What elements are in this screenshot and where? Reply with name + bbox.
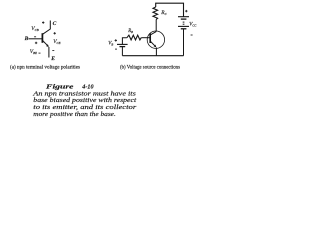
transistor Q2 (b) emitter with arrow — [151, 41, 157, 47]
svg-text:RB: RB — [127, 29, 133, 34]
wire VCC to bottom rail — [183, 29, 185, 56]
battery VB long plate — [117, 43, 128, 45]
transistor Q2 (b) circle — [147, 31, 164, 48]
svg-text:C: C — [53, 21, 57, 27]
transistor Q2 (b) base bar — [149, 33, 151, 43]
battery VCC short plate 1 — [181, 18, 187, 20]
resistor RB zigzag — [127, 35, 141, 40]
resistor RC zigzag — [153, 7, 158, 19]
battery VCC long plate 1 — [178, 16, 189, 18]
wire base lead (a) — [29, 38, 43, 40]
plus sign of VB — [115, 39, 117, 41]
svg-text:E: E — [50, 56, 55, 62]
plus sign of VCC — [185, 10, 187, 12]
wire VB to bottom rail — [121, 47, 123, 56]
transistor Q2 (b) collector diagonal — [151, 32, 157, 35]
plus sign of VCE — [54, 32, 56, 34]
transistor Q1 (a) base bar — [41, 33, 43, 43]
battery VCC long plate 2 — [178, 25, 189, 27]
transistor Q1 (a) emitter wire with arrow — [43, 41, 49, 58]
minus sign of VCE — [52, 50, 54, 52]
plus sign of VBE — [35, 42, 37, 44]
minus sign of VCC — [191, 34, 193, 36]
wire top rail (b) — [156, 3, 184, 16]
svg-text:(b) Voltage source connections: (b) Voltage source connections — [120, 66, 180, 71]
wire VB top corner — [122, 38, 126, 44]
transistor Q1 (a) collector wire — [43, 21, 51, 35]
svg-text:VB: VB — [108, 41, 113, 46]
svg-text:VCC: VCC — [189, 23, 197, 28]
wire base lead (b) — [141, 37, 150, 39]
svg-text:(a) npn terminal voltage polar: (a) npn terminal voltage polarities — [10, 66, 80, 71]
wire bottom rail (b) — [122, 55, 183, 57]
plus sign of VCB — [42, 21, 44, 23]
wire emitter to bottom rail — [155, 48, 157, 56]
svg-text:B: B — [24, 36, 29, 42]
wire RC to collector — [155, 19, 157, 31]
minus sign of VCB — [34, 36, 36, 38]
svg-text:more positive than the base.: more positive than the base. — [33, 111, 116, 118]
battery VCC cell dots — [183, 22, 185, 24]
battery VB short plate — [120, 46, 126, 48]
battery VCC short plate 2 — [181, 28, 187, 30]
minus sign of VB — [115, 48, 117, 50]
minus sign of VBE — [39, 52, 41, 54]
